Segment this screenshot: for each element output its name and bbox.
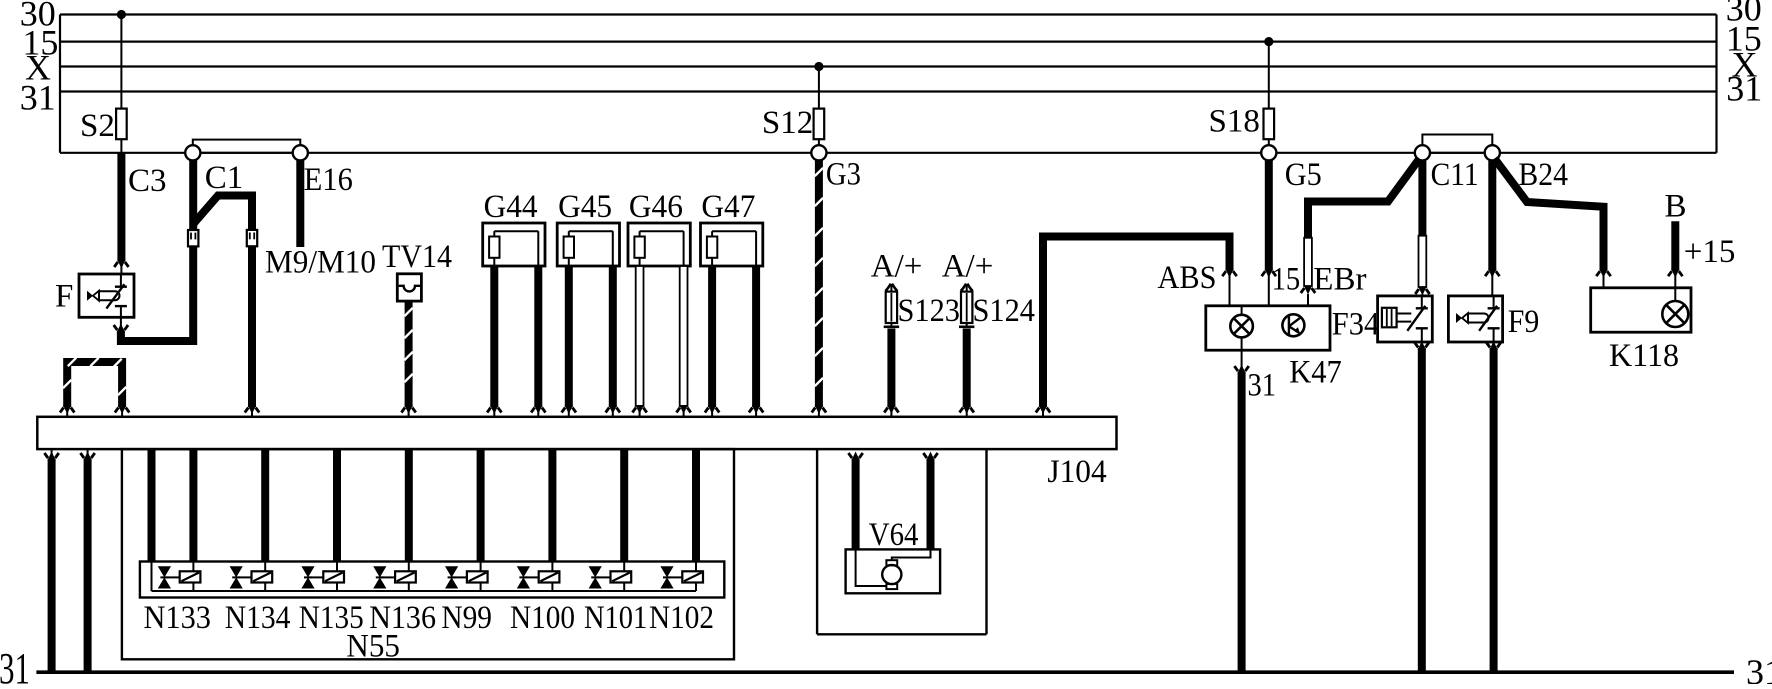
svg-text:S123: S123 [898, 293, 961, 329]
svg-text:N133: N133 [144, 600, 212, 636]
svg-text:G44: G44 [484, 189, 538, 225]
svg-text:15: 15 [1272, 262, 1301, 298]
svg-text:N102: N102 [649, 600, 714, 636]
svg-text:K47: K47 [1289, 355, 1342, 391]
svg-text:K118: K118 [1609, 338, 1679, 374]
svg-text:N99: N99 [441, 600, 492, 636]
svg-text:F34: F34 [1332, 306, 1380, 342]
svg-text:E16: E16 [304, 162, 353, 198]
svg-text:S12: S12 [762, 105, 813, 141]
svg-text:A/+: A/+ [942, 248, 994, 284]
svg-text:31: 31 [20, 78, 56, 118]
svg-text:31: 31 [0, 644, 30, 684]
svg-text:M9/M10: M9/M10 [265, 245, 376, 281]
svg-text:G3: G3 [826, 157, 861, 193]
svg-text:TV14: TV14 [382, 239, 452, 275]
svg-text:B: B [1665, 188, 1687, 224]
svg-text:C11: C11 [1431, 157, 1479, 193]
svg-text:G46: G46 [629, 189, 683, 225]
svg-text:31: 31 [1726, 69, 1762, 109]
svg-text:V64: V64 [869, 517, 919, 553]
svg-text:G5: G5 [1285, 157, 1322, 193]
svg-text:N136: N136 [369, 600, 436, 636]
svg-text:C3: C3 [128, 163, 167, 199]
svg-text:C1: C1 [205, 160, 244, 196]
svg-text:31: 31 [1746, 652, 1772, 684]
svg-text:G45: G45 [558, 189, 612, 225]
svg-text:B24: B24 [1518, 157, 1568, 193]
svg-text:N101: N101 [584, 600, 647, 636]
svg-text:S2: S2 [80, 108, 115, 144]
svg-text:+15: +15 [1684, 234, 1736, 270]
svg-text:N100: N100 [510, 600, 575, 636]
svg-text:S18: S18 [1209, 104, 1260, 140]
svg-text:N134: N134 [225, 600, 291, 636]
svg-text:31: 31 [1248, 368, 1277, 404]
svg-text:F: F [55, 279, 73, 315]
svg-text:A/+: A/+ [871, 248, 923, 284]
svg-text:ABS: ABS [1158, 260, 1217, 296]
svg-text:J104: J104 [1047, 454, 1106, 490]
svg-text:G47: G47 [701, 189, 755, 225]
svg-text:N135: N135 [299, 600, 364, 636]
svg-text:S124: S124 [973, 293, 1036, 329]
svg-text:EBr: EBr [1313, 262, 1366, 298]
svg-text:F9: F9 [1508, 304, 1540, 340]
